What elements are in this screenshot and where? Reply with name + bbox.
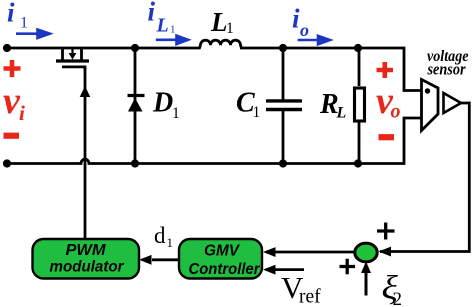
svg-text:o: o [391, 101, 401, 123]
transistor Q1 (MOSFET switch) [56, 48, 89, 70]
wire bottom rail with hop [7, 159, 404, 163]
svg-text:d: d [154, 223, 166, 248]
wire right branch upper to sensor [404, 47, 422, 91]
wire GMV to PWM [152, 258, 179, 261]
arrow io [298, 36, 330, 45]
svg-text:L: L [156, 15, 169, 37]
svg-text:sensor: sensor [427, 60, 466, 79]
sensor input dot [425, 88, 430, 93]
label vi plus (red) [4, 60, 21, 77]
node input top [3, 44, 11, 52]
plus sign upper [377, 223, 395, 240]
svg-text:i: i [148, 0, 156, 27]
label vo minus (red) [379, 134, 395, 140]
svg-text:PWM: PWM [66, 242, 107, 259]
svg-text:1: 1 [170, 24, 176, 36]
svg-text:1: 1 [172, 105, 180, 122]
wire top rail right [240, 47, 404, 50]
svg-text:L: L [210, 7, 228, 37]
svg-text:1: 1 [226, 20, 234, 37]
label vo plus (red) [377, 62, 394, 78]
svg-text:D: D [152, 88, 173, 119]
svg-text:ref: ref [299, 287, 321, 307]
resistor RL [355, 48, 365, 164]
svg-text:o: o [300, 20, 309, 40]
arrow into PWM [139, 255, 152, 265]
diode D1 [128, 48, 145, 164]
arrow gate drive up [80, 86, 91, 97]
wire sensor output feedback [380, 103, 469, 252]
svg-text:2: 2 [393, 289, 403, 307]
wire gate drive [84, 68, 87, 239]
node RL bottom [354, 159, 362, 167]
node RL top [354, 44, 362, 52]
arrow i1 [16, 30, 50, 39]
svg-text:i: i [7, 0, 15, 28]
voltage sensor U1 (trapezoid) [422, 80, 439, 131]
PWM modulator box [33, 239, 140, 279]
svg-text:1: 1 [20, 15, 28, 32]
arrow into GMV upper [263, 247, 276, 257]
svg-text:i: i [292, 4, 300, 34]
arrow feedback into summer [379, 247, 392, 257]
svg-text:GMV: GMV [204, 243, 240, 260]
svg-text:L: L [336, 105, 347, 122]
svg-text:Controller: Controller [189, 261, 261, 278]
wire right branch lower from sensor [404, 118, 422, 165]
node input bottom [3, 159, 11, 167]
svg-text:modulator: modulator [50, 258, 125, 275]
svg-text:1: 1 [167, 235, 174, 250]
label vi minus (red) [4, 133, 20, 139]
svg-text:1: 1 [253, 104, 261, 121]
arrow into GMV lower [263, 265, 276, 275]
node capacitor top [279, 44, 287, 52]
svg-text:i: i [19, 101, 25, 125]
arrow iL1 [156, 36, 188, 45]
plus sign lower [340, 259, 356, 274]
capacitor C1 [266, 48, 302, 164]
node diode bottom [131, 159, 139, 167]
wire Vref to GMV [266, 268, 304, 271]
inductor L1 [201, 40, 242, 48]
wire summer to GMV [266, 251, 356, 254]
sensor buffer triangle [444, 93, 462, 113]
arrow xi2 into summer [365, 271, 368, 296]
wire top rail [7, 45, 201, 48]
GMV controller box [179, 239, 262, 279]
node diode top [131, 44, 139, 52]
summing junction [355, 243, 377, 262]
node capacitor bottom [279, 159, 287, 167]
